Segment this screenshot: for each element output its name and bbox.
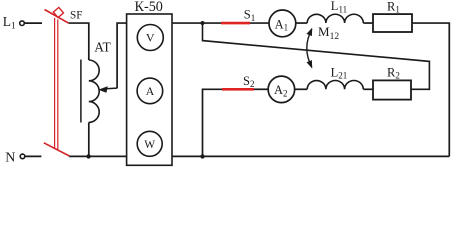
wire S1 to A1 (250, 22, 269, 24)
bottom rail wire (69, 155, 449, 157)
mutual coupling arrow M12 (307, 29, 312, 67)
svg-text:AT: AT (94, 39, 111, 54)
circuit breaker SF top blade (45, 10, 69, 24)
wire K-50 to node (172, 22, 221, 24)
inductor L21 (307, 80, 363, 89)
wire L21 to R2 (363, 88, 373, 90)
wire R1 to right rail (412, 23, 449, 156)
shunt S1 (red) (221, 22, 250, 25)
ammeter A1 (269, 10, 296, 37)
svg-text:SF: SF (70, 10, 82, 22)
wire L11 to R1 (363, 22, 373, 24)
svg-text:W: W (144, 139, 155, 151)
svg-text:N: N (5, 151, 15, 166)
wire N to breaker (25, 155, 42, 157)
circuit breaker SF symbol square (53, 7, 63, 17)
wire A2 to L21 (295, 88, 308, 90)
wire AT bottom to bottom rail (88, 122, 90, 156)
node junction top (200, 21, 204, 25)
wire L1 to breaker (24, 22, 42, 24)
autotransformer AT winding (89, 60, 99, 122)
circuit breaker SF linkage (54, 18, 56, 149)
wire A1 to L11 (296, 22, 308, 24)
wattmeter W (137, 131, 162, 156)
svg-text:V: V (146, 31, 155, 45)
terminal L1 (20, 21, 25, 26)
wire breaker to AT (69, 23, 89, 60)
svg-text:A: A (146, 84, 155, 98)
svg-text:К-50: К-50 (135, 0, 163, 15)
voltmeter V (137, 25, 163, 51)
autotransformer AT core (80, 60, 82, 123)
junction dot AT-N (86, 154, 90, 158)
wire AT wiper to K-50 (117, 23, 127, 88)
circuit breaker SF bottom blade (44, 143, 70, 156)
wire S2 to A2 (254, 88, 268, 90)
terminal N (20, 154, 25, 159)
ammeter A (137, 78, 163, 104)
resistor R1 (373, 14, 412, 32)
ammeter A2 (268, 76, 295, 103)
AT wiper arrow (104, 87, 118, 90)
crossover wire node to R2 (203, 23, 430, 89)
junction dot bottom (200, 154, 204, 158)
wire S2 branch vertical (203, 89, 223, 156)
inductor L11 (307, 14, 363, 23)
resistor R2 (373, 80, 411, 99)
instrument block K-50 (127, 14, 172, 165)
shunt S2 (red) (222, 88, 254, 91)
